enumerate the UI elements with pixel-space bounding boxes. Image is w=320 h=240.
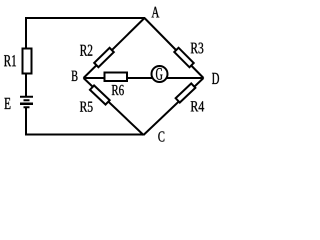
node C label: [158, 131, 164, 141]
label R3: [191, 43, 204, 54]
wire left vertical middle: [25, 75, 27, 97]
wire arm A-D: [145, 18, 204, 78]
wire top horizontal: [25, 17, 145, 19]
wire bottom horizontal: [25, 134, 144, 136]
resistor R1: [23, 49, 32, 74]
battery E plate short: [24, 99, 30, 101]
resistor R6: [105, 73, 128, 82]
battery E plate long middle: [20, 103, 33, 106]
wire arm A-B: [84, 18, 145, 78]
label R5: [80, 102, 93, 112]
resistor R2: [94, 48, 114, 67]
battery E plate short bottom: [24, 106, 30, 108]
galvanometer G: [152, 66, 168, 82]
label R6: [112, 85, 124, 95]
wire arm D-C: [144, 78, 204, 135]
wire bridge B-D: [84, 77, 204, 79]
node D label: [212, 73, 219, 84]
resistor R3: [174, 48, 193, 67]
wire left vertical lower: [25, 108, 27, 136]
wire arm B-C: [84, 78, 144, 135]
wire left vertical upper: [25, 17, 27, 49]
node B label: [72, 71, 78, 81]
resistor R5: [90, 85, 110, 104]
label E: [4, 98, 10, 109]
battery E plate long top: [20, 96, 33, 98]
node A label: [152, 7, 160, 18]
resistor R4: [176, 83, 196, 102]
label R1: [4, 55, 16, 66]
galvanometer G letter: [156, 68, 163, 80]
label R2: [80, 45, 92, 56]
label R4: [191, 101, 204, 111]
